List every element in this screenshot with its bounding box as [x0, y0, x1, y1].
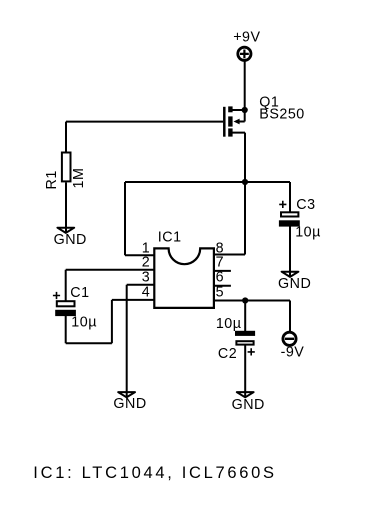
- svg-text:GND: GND: [278, 276, 311, 292]
- svg-text:10µ: 10µ: [295, 225, 321, 241]
- svg-text:GND: GND: [232, 397, 265, 413]
- svg-text:GND: GND: [54, 232, 87, 248]
- svg-text:1M: 1M: [71, 168, 87, 189]
- svg-text:10µ: 10µ: [216, 316, 242, 332]
- svg-text:C3: C3: [296, 197, 315, 213]
- svg-text:BS250: BS250: [259, 107, 304, 123]
- svg-text:4: 4: [142, 285, 150, 301]
- svg-text:3: 3: [142, 270, 150, 286]
- svg-text:IC1: LTC1044, ICL7660S: IC1: LTC1044, ICL7660S: [33, 464, 276, 482]
- svg-text:2: 2: [142, 255, 150, 271]
- svg-text:C1: C1: [70, 285, 89, 301]
- svg-text:R1: R1: [44, 170, 60, 189]
- svg-text:5: 5: [216, 285, 224, 301]
- svg-text:7: 7: [216, 255, 224, 271]
- svg-text:+9V: +9V: [233, 29, 260, 45]
- svg-text:IC1: IC1: [158, 229, 182, 245]
- svg-text:10µ: 10µ: [71, 315, 97, 331]
- svg-text:-9V: -9V: [281, 345, 305, 361]
- svg-text:6: 6: [216, 270, 224, 286]
- svg-text:GND: GND: [113, 396, 146, 412]
- svg-text:C2: C2: [218, 346, 237, 362]
